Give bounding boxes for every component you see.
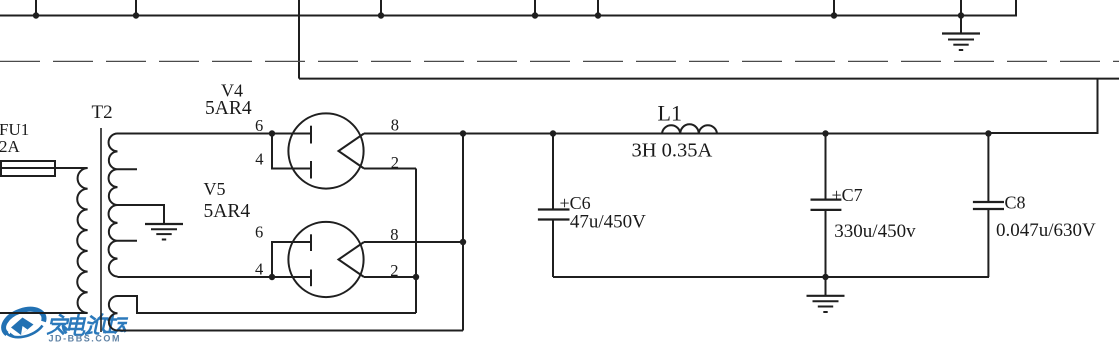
wire stub up at x=598	[597, 0, 599, 16]
junction dot top line 3	[378, 12, 384, 18]
junction dot C7 at bottom rail	[822, 274, 828, 280]
svg-text:47u/450V: 47u/450V	[570, 212, 646, 233]
wire secondary center tap to ground	[118, 205, 165, 223]
junction dot top line 5	[595, 12, 601, 18]
watermark logo inner arrow	[11, 318, 34, 336]
svg-text:5AR4: 5AR4	[205, 98, 252, 119]
tube V5 plate bar pin4	[310, 270, 312, 287]
junction dot top line 4	[532, 12, 538, 18]
wire top AC line	[0, 0, 1016, 16]
ground at top line	[960, 16, 962, 34]
wire V5 pin6 jumper	[272, 242, 311, 277]
tube V5 envelope	[288, 222, 363, 297]
wire horizontal y=79	[299, 78, 1119, 80]
svg-text:L1: L1	[658, 101, 682, 126]
wire HV bottom to V5 plates	[118, 276, 312, 278]
wire right drop to B+ rail	[989, 79, 1098, 133]
junction dot top line 1	[33, 12, 39, 18]
tube V5 cathode arms	[339, 242, 365, 277]
transformer T2 primary winding	[77, 168, 87, 313]
tube V5 plate bar pin6	[310, 234, 312, 251]
junction dot V5 pin2	[413, 274, 419, 280]
wire V5 pin2 to bus	[364, 276, 416, 278]
svg-text:8: 8	[391, 116, 399, 135]
svg-text:2A: 2A	[0, 137, 21, 156]
svg-text:C8: C8	[1005, 193, 1026, 213]
watermark logo JD-BBS swoosh ring	[4, 309, 44, 337]
svg-text:4: 4	[255, 260, 263, 279]
svg-text:0.047u/630V: 0.047u/630V	[996, 220, 1096, 241]
tube V4 envelope	[288, 113, 363, 188]
wire pin8 vertical bus x=463	[462, 134, 464, 331]
wire stub up at x=535	[534, 0, 536, 16]
svg-text:330u/450v: 330u/450v	[834, 221, 916, 242]
junction dot V4 plate node	[269, 130, 275, 136]
svg-text:3H 0.35A: 3H 0.35A	[632, 140, 713, 162]
tube V4 cathode arms	[339, 134, 365, 169]
wire V5 pin8 to bus	[364, 241, 463, 243]
svg-text:6: 6	[255, 223, 263, 242]
ground at transformer center tap	[145, 223, 183, 225]
wire secondary tap stub 1	[118, 168, 138, 170]
wire secondary tap stub 2	[118, 240, 138, 242]
wire filament top lead to pin-2 bus	[118, 296, 417, 313]
junction dot V5 pin8	[460, 239, 466, 245]
wire stub up at x=36	[35, 0, 37, 16]
wire filament bottom lead to pin-8 bus	[118, 330, 464, 332]
svg-text:5AR4: 5AR4	[204, 201, 251, 222]
svg-text:T2: T2	[92, 102, 113, 123]
svg-text:2: 2	[391, 153, 399, 172]
tube V4 plate bar pin6	[310, 126, 312, 144]
wire stub up at x=136	[135, 0, 137, 16]
wire bottom rail of filter caps	[553, 276, 989, 278]
fuse FU1	[0, 167, 88, 169]
svg-text:V5: V5	[204, 179, 226, 199]
dashed AC mains line	[0, 60, 1119, 62]
wire stub up at x=961	[960, 0, 962, 16]
junction dot C6 at B+ rail	[550, 130, 556, 136]
wire vertical drop at x=299	[298, 0, 300, 79]
wire stub up at x=381	[380, 0, 382, 16]
wire V4 pin4 jumper	[272, 134, 311, 169]
capacitor C8	[987, 134, 989, 203]
wire pin2 vertical bus x=416	[415, 169, 417, 314]
junction dot C8 at B+ rail	[985, 130, 991, 136]
wire stub up at x=834	[833, 0, 835, 16]
svg-text:+C6: +C6	[560, 193, 591, 213]
svg-text:2: 2	[390, 261, 398, 280]
transformer T2 HV secondary winding	[109, 134, 118, 277]
tube V4 plate bar pin4	[310, 161, 312, 179]
wire primary bottom lead	[0, 312, 88, 314]
watermark text 家电论坛	[48, 315, 129, 336]
junction dot top line ground node	[958, 12, 964, 18]
svg-text:4: 4	[255, 150, 263, 169]
junction dot C7 at B+ rail	[822, 130, 828, 136]
svg-text:8: 8	[390, 225, 398, 244]
svg-text:+C7: +C7	[832, 185, 863, 205]
capacitor C6	[552, 134, 554, 210]
inductor L1	[662, 124, 717, 133]
wire V4 pin2 to bus	[364, 168, 416, 170]
transformer T2 filament winding	[109, 296, 118, 331]
svg-text:6: 6	[255, 116, 263, 135]
capacitor C7	[825, 134, 827, 200]
svg-text:JD-BBS.COM: JD-BBS.COM	[49, 334, 122, 344]
junction dot V5 plate node	[269, 274, 275, 280]
wire HV top to V4 plates	[118, 133, 312, 135]
transformer T2 core	[100, 128, 102, 332]
junction dot top line 6	[831, 12, 837, 18]
junction dot pin8 node at B+ rail	[460, 130, 466, 136]
ground at C7	[825, 277, 827, 295]
junction dot top line 2	[133, 12, 139, 18]
wire B+ rail	[364, 133, 989, 135]
